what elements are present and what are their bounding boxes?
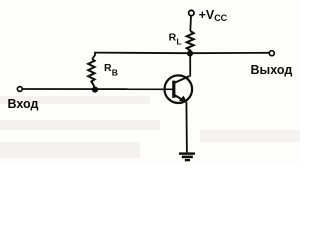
ground <box>179 154 195 161</box>
transistor Q1 <box>165 75 193 103</box>
svg-text:CC: CC <box>214 13 227 23</box>
svg-text:R: R <box>104 62 112 74</box>
label +Vcc <box>199 8 228 23</box>
svg-text:L: L <box>176 37 181 47</box>
wire collector lead <box>189 53 191 76</box>
resistor RB <box>88 59 95 89</box>
svg-text:B: B <box>112 68 118 78</box>
label RB <box>104 62 118 78</box>
svg-text:Вход: Вход <box>8 97 39 111</box>
wire collector node line <box>95 52 269 55</box>
label RL <box>169 31 182 46</box>
node collector junction <box>187 50 193 56</box>
node base junction <box>92 87 98 93</box>
terminal input <box>17 87 22 92</box>
wire input line <box>23 88 173 90</box>
wire Vcc to RL <box>189 16 192 31</box>
svg-text:+V: +V <box>199 8 215 22</box>
wire RB top lead <box>92 52 95 59</box>
terminal +Vcc <box>189 10 194 15</box>
terminal output <box>269 51 274 56</box>
resistor RL <box>187 31 194 52</box>
wire emitter lead <box>185 102 188 153</box>
svg-text:Выход: Выход <box>251 63 293 77</box>
svg-text:R: R <box>169 31 177 43</box>
scan background tint <box>0 0 300 164</box>
